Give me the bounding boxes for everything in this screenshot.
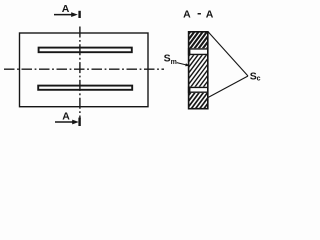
svg-text:A: A: [206, 9, 214, 21]
leader lines for Sc: [208, 32, 248, 98]
slot 2 (lower): [38, 86, 132, 90]
label Sm: [164, 53, 177, 66]
slot gap in section (upper): [190, 48, 207, 55]
svg-text:A: A: [62, 3, 70, 15]
section outline: [189, 32, 208, 109]
plate outline (left view): [20, 33, 149, 107]
section title A - A: [183, 9, 214, 21]
svg-text:A: A: [62, 110, 70, 122]
section line thick end, bottom: [78, 118, 80, 126]
svg-text:A: A: [183, 9, 191, 21]
section arrow, top: [54, 12, 78, 17]
label Sc: [250, 70, 261, 82]
membrane strip at lower slot: [188, 87, 191, 94]
slot 1 (upper): [39, 48, 132, 53]
membrane strip at upper slot: [188, 48, 191, 55]
section arrow, bottom: [55, 120, 79, 125]
svg-text:S: S: [164, 53, 171, 65]
svg-text:m: m: [171, 59, 177, 66]
slot gap in section (lower): [190, 87, 207, 93]
svg-text:c: c: [257, 76, 261, 83]
section hatching: [130, 28, 273, 112]
wire: vertical section cutting line A-A: [79, 27, 81, 120]
wire: horizontal centerline of plate: [4, 68, 164, 70]
leader line for Sm: [177, 63, 190, 67]
section line thick end, top: [78, 11, 80, 18]
